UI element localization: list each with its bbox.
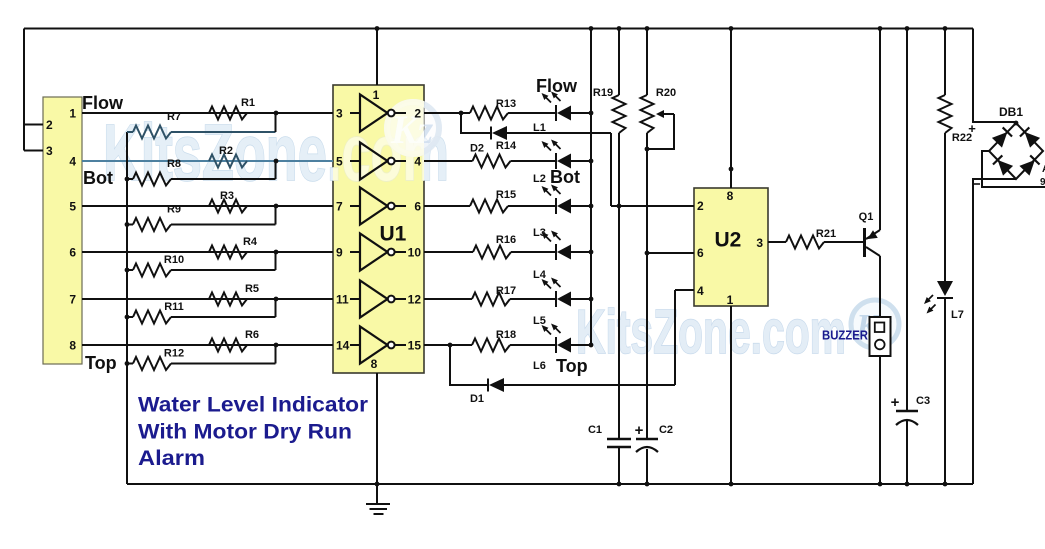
svg-text:R3: R3 (220, 190, 234, 202)
resistor R1 (209, 97, 255, 120)
label L5 (533, 315, 546, 327)
svg-text:L4: L4 (533, 269, 547, 281)
wire U1 out row5 (424, 298, 591, 300)
svg-text:U2: U2 (715, 229, 742, 252)
wire DB1 minus to ground rail (973, 179, 1016, 484)
U2 pin 4 label (697, 284, 704, 298)
label Top (input) (85, 353, 117, 373)
svg-text:R11: R11 (164, 301, 184, 313)
svg-text:R14: R14 (496, 140, 517, 152)
LED L5 (544, 280, 571, 307)
LED L6 (544, 326, 571, 353)
resistor R14 (473, 140, 517, 168)
wire DB1 ac input (982, 151, 1045, 187)
svg-text:+: + (891, 394, 900, 411)
svg-text:D2: D2 (470, 143, 484, 155)
node row4 junction x276 (274, 250, 279, 255)
buffer gate 4 of U1 (350, 234, 406, 271)
svg-text:8: 8 (371, 357, 378, 371)
node ground rail x647 (645, 482, 650, 487)
U1 pin 15 label (408, 339, 422, 353)
svg-text:10: 10 (408, 246, 422, 260)
svg-text:L3: L3 (533, 227, 546, 239)
U1 pin 4 label (414, 155, 421, 169)
buffer gate 2 of U1 (350, 143, 406, 180)
svg-text:R5: R5 (245, 283, 259, 295)
U1 pin 12 label (408, 293, 422, 307)
svg-text:3: 3 (756, 236, 763, 250)
svg-text:Bot: Bot (83, 168, 113, 188)
resistor R4 (209, 236, 258, 259)
node row1 junction x276 (274, 111, 279, 116)
svg-text:R1: R1 (241, 97, 255, 109)
connector pin 3 label (46, 144, 53, 158)
svg-text:R15: R15 (496, 189, 516, 201)
wire U2 pin3 to R21 (768, 241, 786, 243)
U1 pin 14 label (336, 339, 350, 353)
U1 pin 10 label (408, 246, 422, 260)
connector pin 7 label (69, 293, 76, 307)
svg-text:KitsZone.com: KitsZone.com (576, 298, 846, 367)
connector pin 8 label (69, 339, 76, 353)
label DB1 (999, 105, 1023, 119)
capacitor C1 (588, 424, 631, 484)
node LED rail row2 (589, 159, 594, 164)
svg-text:5: 5 (336, 155, 343, 169)
node top rail x880 (878, 26, 883, 31)
svg-text:6: 6 (697, 246, 704, 260)
node LED rail row5 (589, 297, 594, 302)
svg-text:R13: R13 (496, 98, 516, 110)
svg-text:R2: R2 (219, 145, 233, 157)
resistor R15 (470, 189, 516, 213)
bridge diode bottom-left (993, 155, 1013, 176)
svg-text:7: 7 (336, 200, 343, 214)
node ground bus junction (125, 268, 130, 273)
wire Q1 collector to buzzer (879, 256, 881, 317)
resistor R16 (473, 234, 516, 259)
node ground bus junction (125, 315, 130, 320)
U1 pin 3 label (336, 107, 343, 121)
watermark logo 1 (387, 102, 439, 154)
node row6 junction x276 (274, 343, 279, 348)
resistor R3 (209, 190, 247, 213)
resistor R13 (470, 98, 516, 120)
label Flow (LED) (536, 76, 578, 96)
node ground rail x731 (729, 482, 734, 487)
node LED rail row4 (589, 250, 594, 255)
wire ground bus vertical (126, 132, 128, 484)
bridge diode top-right (1020, 127, 1040, 148)
connector pin 2 label (46, 118, 53, 132)
svg-text:3: 3 (46, 144, 53, 158)
wire D1 branch (450, 290, 694, 385)
svg-text:Q1: Q1 (859, 211, 874, 223)
wire C3 supply (906, 29, 908, 412)
U1 pin 5 label (336, 155, 343, 169)
svg-text:With Motor Dry Run: With Motor Dry Run (138, 420, 352, 444)
node LED rail row3 (589, 204, 594, 209)
svg-text:R4: R4 (243, 236, 258, 248)
wire left loop pins 2-3 (24, 29, 43, 151)
wire R20 wiper (647, 110, 674, 149)
node D1 branch (448, 343, 453, 348)
svg-text:1: 1 (373, 88, 380, 102)
buffer gate 6 of U1 (350, 327, 406, 364)
wire U2 pin8 supply (730, 29, 732, 189)
svg-text:6: 6 (69, 246, 76, 260)
svg-text:14: 14 (336, 339, 350, 353)
resistor R22 (939, 29, 973, 282)
resistor R11 (127, 299, 276, 324)
U1 pin 1 label (373, 88, 380, 102)
buffer gate 1 of U1 (350, 95, 406, 132)
svg-text:R10: R10 (164, 254, 184, 266)
svg-text:5: 5 (69, 200, 76, 214)
node top rail x647 (645, 26, 650, 31)
wire D2 branch (461, 113, 694, 206)
connector pin 4 label (69, 155, 76, 169)
wire row6 pin8 to U1 pin14 (82, 344, 333, 346)
svg-text:D1: D1 (470, 393, 484, 405)
IC U2 body (694, 188, 768, 306)
wire DB1 plus feed (973, 29, 1016, 123)
watermark logo 2 (851, 300, 899, 348)
LED L2 (544, 142, 571, 169)
label Bot (LED) (550, 167, 580, 187)
svg-text:R7: R7 (167, 111, 181, 123)
connector pin 1 label (69, 107, 76, 121)
svg-text:R6: R6 (245, 329, 259, 341)
capacitor C2 (635, 422, 673, 484)
node ground rail x945 (943, 482, 948, 487)
resistor R6 (209, 329, 259, 352)
wire Q1 emitter to rail (879, 29, 881, 231)
resistor R2 (209, 145, 247, 168)
U2 reference label (715, 229, 742, 252)
svg-text:L6: L6 (533, 360, 546, 372)
connector pin 6 label (69, 246, 76, 260)
LED L4 (544, 233, 571, 260)
svg-text:15: 15 (408, 339, 422, 353)
connector J1 body (43, 97, 82, 364)
svg-text:2: 2 (414, 107, 421, 121)
wire LED cathode rail (590, 29, 592, 346)
buffer gate 5 of U1 (350, 281, 406, 318)
wire row3 pin5 to U1 pin7 (82, 205, 333, 207)
svg-text:R8: R8 (167, 158, 181, 170)
IC U1 body (333, 85, 424, 373)
U1 pin 9 label (336, 246, 343, 260)
svg-text:Top: Top (556, 356, 588, 376)
node top rail x591 (589, 26, 594, 31)
wire bottom ground rail (127, 483, 973, 485)
label L2 (533, 173, 546, 185)
node LED rail row1 (589, 111, 594, 116)
label L1 (533, 122, 546, 134)
label AC partial (1040, 164, 1045, 188)
diode D1 (470, 378, 504, 405)
node D2 branch (459, 111, 464, 116)
svg-text:6: 6 (414, 200, 421, 214)
svg-text:8: 8 (727, 189, 734, 203)
node LED rail row6 (589, 343, 594, 348)
svg-text:4: 4 (697, 284, 704, 298)
svg-text:L7: L7 (951, 309, 964, 321)
resistor R17 (472, 285, 516, 306)
svg-text:8: 8 (69, 339, 76, 353)
bridge rectifier DB1 outline (989, 123, 1043, 179)
node ground rail x880 (878, 482, 883, 487)
node top rail x945 (943, 26, 948, 31)
wire U1 out row4 (424, 251, 591, 253)
svg-text:1: 1 (69, 107, 76, 121)
svg-text:2: 2 (46, 118, 53, 132)
svg-text:1: 1 (727, 293, 734, 307)
resistor R20 (preset) (641, 29, 677, 440)
label DB1 plus (968, 121, 976, 136)
node top rail x619 (617, 26, 622, 31)
svg-text:R16: R16 (496, 234, 516, 246)
buzzer BZ1 (822, 317, 891, 356)
svg-text:+: + (968, 121, 976, 136)
node row2 junction x276 (274, 159, 279, 164)
label Bot (input) (83, 168, 113, 188)
svg-text:Bot: Bot (550, 167, 580, 187)
U2 pin 3 label (756, 236, 763, 250)
capacitor C3 (891, 394, 930, 484)
svg-text:R21: R21 (816, 228, 836, 240)
watermark text 1 (103, 108, 449, 197)
U2 pin 2 label (697, 199, 704, 213)
svg-text:2: 2 (697, 199, 704, 213)
svg-text:R20: R20 (656, 87, 676, 99)
node R19 pin2 junction (617, 204, 622, 209)
svg-text:9: 9 (336, 246, 343, 260)
label DB1 minus (974, 183, 980, 185)
svg-text:11: 11 (336, 293, 349, 307)
svg-text:BUZZER: BUZZER (822, 329, 868, 343)
wire top supply rail (24, 28, 973, 30)
svg-text:L2: L2 (533, 173, 546, 185)
label L6 (533, 360, 546, 372)
svg-text:7: 7 (69, 293, 76, 307)
ground (366, 484, 390, 514)
svg-text:4: 4 (69, 155, 76, 169)
svg-text:R9: R9 (167, 204, 181, 216)
resistor R8 (127, 158, 276, 186)
svg-text:C1: C1 (588, 424, 602, 436)
resistor R19 (593, 29, 626, 440)
svg-text:DB1: DB1 (999, 105, 1023, 119)
resistor R18 (472, 329, 516, 352)
connector pin 5 label (69, 200, 76, 214)
wire buzzer to ground rail (879, 356, 881, 484)
svg-text:9V: 9V (1040, 177, 1045, 188)
resistor R5 (209, 283, 259, 306)
resistor R12 (127, 345, 276, 370)
U1 pin 2 label (414, 107, 421, 121)
label Flow (input) (82, 93, 124, 113)
node R20 wiper junction (645, 147, 650, 152)
svg-text:3: 3 (336, 107, 343, 121)
wire R21 to Q1 base (824, 241, 863, 243)
label L3 (533, 227, 546, 239)
node ground rail x619 (617, 482, 622, 487)
node top rail x731 (729, 26, 734, 31)
resistor R10 (127, 252, 276, 277)
resistor R9 (127, 204, 276, 232)
wire row1 pin1 to U1 pin3 (82, 112, 333, 114)
svg-text:U1: U1 (380, 223, 407, 246)
node ground rail x377 (375, 482, 380, 487)
wire U1 out row1 (424, 112, 591, 114)
node row5 junction x276 (274, 297, 279, 302)
U1 reference label (380, 223, 407, 246)
svg-text:R17: R17 (496, 285, 516, 297)
wire L7 to ground rail (944, 298, 946, 484)
svg-text:Flow: Flow (82, 93, 124, 113)
bridge diode bottom-right (1019, 155, 1039, 176)
node row3 junction x276 (274, 204, 279, 209)
transistor Q1 (859, 211, 880, 257)
U2 pin 8 label (727, 189, 734, 203)
node U2 pin8 junction (729, 167, 734, 172)
wire U1 out row2 (424, 160, 591, 162)
watermark text 2 (576, 298, 846, 367)
node R20 pin6 junction (645, 251, 650, 256)
label L4 (533, 269, 547, 281)
svg-text:R12: R12 (164, 348, 184, 360)
svg-text:+: + (635, 422, 644, 439)
wire U1 pin8 to ground rail (376, 373, 378, 484)
U2 pin 1 label (727, 293, 734, 307)
U1 pin 11 label (336, 293, 349, 307)
svg-text:Alarm: Alarm (138, 446, 205, 470)
svg-text:Top: Top (85, 353, 117, 373)
wire U1 out row6 (424, 344, 591, 346)
svg-text:R19: R19 (593, 87, 613, 99)
U1 pin 7 label (336, 200, 343, 214)
U1 pin 6 label (414, 200, 421, 214)
resistor R7 (127, 111, 276, 139)
U2 pin 6 label (697, 246, 704, 260)
wire U1 out row3 (424, 205, 591, 207)
node ground bus junction (125, 177, 130, 182)
resistor R21 (786, 228, 836, 249)
wire row5 pin7 to U1 pin11 (82, 298, 333, 300)
bridge diode top-left (992, 127, 1012, 148)
wire row2 pin4 to U1 pin5 (blue) (82, 160, 333, 162)
svg-text:Water Level Indicator: Water Level Indicator (138, 393, 369, 417)
svg-text:C3: C3 (916, 395, 930, 407)
svg-text:Flow: Flow (536, 76, 578, 96)
node DB1 top corner (1014, 121, 1019, 126)
wire row4 pin6 to U1 pin9 (82, 251, 333, 253)
node top rail x377 (375, 26, 380, 31)
svg-text:L5: L5 (533, 315, 546, 327)
buffer gate 3 of U1 (350, 188, 406, 225)
LED L1 (544, 94, 571, 121)
svg-text:4: 4 (414, 155, 421, 169)
title text (138, 393, 369, 471)
node top rail x907 (905, 26, 910, 31)
wire U2 pin1 to ground (730, 306, 732, 484)
svg-text:R18: R18 (496, 329, 516, 341)
wire U1 pin1 to rail (376, 29, 378, 86)
node ground bus junction (125, 222, 130, 227)
U1 pin 8 label (371, 357, 378, 371)
LED L3 (544, 187, 571, 214)
label Top (LED) (556, 356, 588, 376)
wire U2 pin6 (647, 252, 694, 254)
svg-text:12: 12 (408, 293, 422, 307)
node ground bus junction (125, 361, 130, 366)
node ground rail x907 (905, 482, 910, 487)
svg-text:C2: C2 (659, 424, 673, 436)
LED L7 (927, 281, 964, 321)
diode D2 (470, 126, 507, 155)
